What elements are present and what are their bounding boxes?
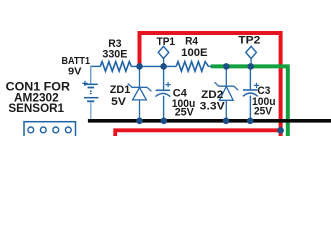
resistor R4 xyxy=(176,62,208,72)
node junction C4/ground xyxy=(161,118,168,125)
zener ZD2 xyxy=(215,66,239,120)
capacitor C3 plus sign xyxy=(254,83,259,88)
wire (R3 to R4 segment) xyxy=(131,65,176,67)
node junction R3/ZD1/red xyxy=(136,63,143,70)
red net highlight (top loop) xyxy=(140,33,281,136)
svg-text:5V: 5V xyxy=(111,96,126,108)
node junction C3/ground xyxy=(247,118,254,125)
node junction TP2/C3 xyxy=(247,63,254,70)
capacitor C3 xyxy=(243,66,258,120)
wire (R4 right lead) xyxy=(208,65,212,67)
resistor R3 xyxy=(100,62,131,72)
node junction ZD2/ground xyxy=(223,118,230,125)
svg-text:3.3V: 3.3V xyxy=(200,101,226,113)
capacitor C4 plus sign xyxy=(165,82,170,87)
svg-text:R4: R4 xyxy=(185,35,199,47)
svg-text:25V: 25V xyxy=(254,106,273,118)
svg-text:9V: 9V xyxy=(68,66,82,78)
svg-text:TP1: TP1 xyxy=(157,36,175,48)
ground bus wire xyxy=(88,119,331,123)
test point TP2 xyxy=(246,46,257,66)
svg-text:TP2: TP2 xyxy=(238,35,260,47)
svg-text:ZD1: ZD1 xyxy=(110,84,131,96)
capacitor C4 xyxy=(156,66,171,120)
node junction ZD1/ground xyxy=(136,118,143,125)
svg-text:SENSOR1: SENSOR1 xyxy=(8,103,64,115)
battery BATT1 xyxy=(84,84,99,119)
node junction ZD2 xyxy=(223,63,230,70)
zener ZD1 xyxy=(128,66,152,120)
wire (battery top stub) xyxy=(90,66,92,84)
svg-text:ZD2: ZD2 xyxy=(201,89,223,101)
node junction red net bottom xyxy=(277,127,284,134)
red net highlight (bottom branch) xyxy=(115,130,280,136)
node junction TP1/C4 xyxy=(160,63,167,70)
battery plus sign xyxy=(82,81,87,86)
wire (battery to R3) xyxy=(90,65,100,67)
svg-text:100E: 100E xyxy=(181,47,207,59)
green net highlight xyxy=(211,66,288,136)
connector CON1 xyxy=(24,122,76,140)
svg-text:25V: 25V xyxy=(175,107,195,119)
svg-text:330E: 330E xyxy=(102,48,127,60)
test point TP1 xyxy=(158,46,169,66)
